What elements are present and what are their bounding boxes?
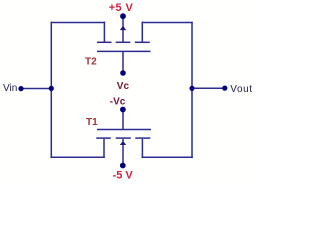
wire Vout lead	[192, 87, 224, 89]
T2 middle body contact bar	[116, 41, 131, 43]
node -5V terminal dot	[120, 163, 126, 169]
wire T2 body lead from +5V	[122, 17, 124, 42]
T1 body arrow (points up into body)	[120, 141, 126, 145]
wire bottom-right horizontal	[142, 156, 193, 158]
svg-text:-5 V: -5 V	[113, 169, 134, 181]
T1 right contact bar	[135, 137, 150, 139]
wire T1 gate stub from -Vc	[122, 111, 124, 129]
junction Vout-rail dot	[189, 86, 194, 91]
node Vc terminal dot	[120, 70, 126, 76]
wire T1 body lead to -5V	[122, 139, 124, 164]
wire top-right horizontal	[142, 22, 193, 24]
T2 body arrow (points up to +5V)	[120, 26, 126, 31]
svg-text:Vout: Vout	[230, 84, 252, 95]
T1 middle body contact bar	[116, 137, 131, 139]
node +5V terminal dot	[120, 13, 126, 19]
junction Vin-rail dot	[49, 86, 54, 91]
node -Vc terminal dot	[120, 107, 126, 113]
svg-text:Vin: Vin	[3, 83, 17, 94]
transistor T1 (bottom MOSFET)	[96, 130, 151, 139]
wire T1 right stub	[141, 139, 143, 158]
svg-text:Vc: Vc	[117, 81, 130, 92]
wire T2 gate stub	[122, 52, 124, 72]
wire top-left horizontal	[51, 22, 106, 24]
wire T2 right stub	[141, 22, 143, 42]
wire right rail	[191, 22, 193, 158]
transistor T2 (top MOSFET)	[97, 42, 151, 51]
T2 left contact bar	[97, 41, 112, 43]
T2 right contact bar	[135, 41, 150, 43]
wire T2 left stub	[103, 22, 105, 42]
wire bottom-left horizontal	[51, 156, 105, 158]
T1 gate plate	[97, 129, 151, 131]
node Vout terminal dot	[222, 86, 227, 91]
wire T1 left stub	[103, 139, 105, 158]
wire Vin lead	[22, 88, 52, 90]
wire left rail	[50, 22, 52, 158]
svg-text:T2: T2	[85, 57, 97, 68]
svg-text:+5 V: +5 V	[109, 2, 134, 14]
node Vin terminal dot	[18, 86, 23, 91]
T1 left contact bar	[96, 137, 111, 139]
svg-text:-Vc: -Vc	[110, 96, 126, 107]
T2 gate plate	[97, 50, 151, 52]
svg-text:T1: T1	[86, 117, 98, 128]
